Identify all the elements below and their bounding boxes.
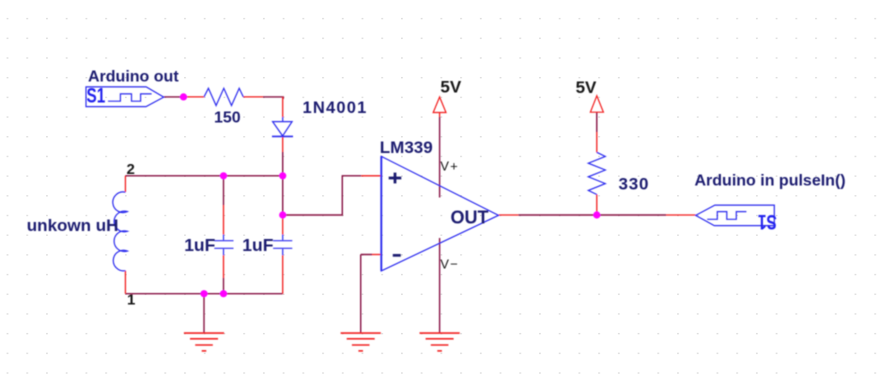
svg-text:5V: 5V: [440, 77, 461, 96]
svg-text:1: 1: [127, 291, 135, 308]
svg-text:unkown uH: unkown uH: [27, 216, 119, 235]
svg-text:V+: V+: [440, 159, 459, 174]
svg-text:330: 330: [619, 175, 650, 194]
svg-text:2: 2: [127, 161, 135, 178]
svg-text:1N4001: 1N4001: [303, 99, 368, 117]
svg-text:S1: S1: [87, 83, 106, 107]
svg-text:1uF: 1uF: [184, 235, 215, 255]
svg-text:OUT: OUT: [451, 208, 489, 228]
svg-text:5V: 5V: [576, 78, 597, 97]
svg-text:150: 150: [214, 110, 241, 127]
svg-text:1uF: 1uF: [242, 235, 273, 255]
svg-text:V−: V−: [440, 256, 459, 271]
svg-text:S1: S1: [758, 211, 777, 235]
svg-text:Arduino in pulseIn(): Arduino in pulseIn(): [695, 173, 846, 190]
svg-text:LM339: LM339: [380, 138, 433, 157]
